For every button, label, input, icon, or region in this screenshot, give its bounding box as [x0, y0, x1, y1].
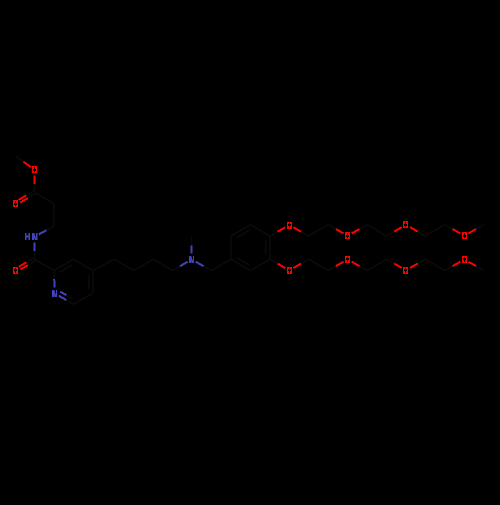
wire: chain CH2-CH2 bond b — [134, 259, 154, 270]
wire: amide C-pyridine C2 bond — [35, 259, 54, 270]
wire: CH2-CH2 bond t2 — [367, 225, 386, 236]
(colored half) wire: CH2-O bond b4 — [394, 264, 402, 268]
wire: NH-C(=O) amide bond — [34, 251, 36, 260]
wire: N-CH2 bond — [204, 266, 212, 270]
(colored half) wire: pyridine N1=C6 double bond — [59, 296, 67, 300]
(colored half) wire: CH2-O bond t2 — [336, 229, 344, 233]
wire: benzene C3-C4 bond — [251, 225, 270, 236]
wire: O-CH2 bond b5 — [418, 259, 426, 263]
atom O label (atom 4) — [13, 200, 18, 207]
(colored half) wire: NH-C(=O) amide bond — [34, 242, 36, 251]
atom O label (atom 46) — [403, 267, 408, 274]
wire: CH2-CH2 bond t3 — [425, 225, 444, 236]
(colored half) wire: N-CH2 bond — [196, 262, 204, 266]
wire: N-methyl bond — [191, 237, 193, 245]
wire: ester methyl C-O bond — [16, 156, 23, 161]
(colored half) wire: pyridine C2-N1 bond — [53, 279, 55, 288]
wire: O-CH2 bond t1 — [301, 232, 309, 236]
(colored half) wire: CH2-O bond t6 — [453, 229, 461, 233]
(colored half) wire: O-CH2 bond t1 — [293, 227, 301, 231]
wire: pyridine-chain CH2 bond — [93, 259, 114, 270]
wire: pyridine N1=C6 double bond — [66, 300, 74, 304]
atom O label (atom 32) — [345, 232, 350, 239]
wire: O-CH2 bond b1 — [301, 259, 309, 263]
atom O label (atom 49) — [462, 256, 467, 263]
wire: benzene C5-C6 bond — [251, 259, 270, 270]
wire: CH2-NH bond — [46, 226, 54, 230]
atom O label (atom 35) — [403, 221, 408, 228]
(colored half) wire: CH2-O bond b6 — [453, 262, 461, 266]
wire: pyridine C2-N1 bond — [53, 271, 55, 280]
(colored half) wire: O-CH2 bond b1 — [293, 264, 301, 268]
(colored half) wire: ester methyl C-O bond — [23, 162, 30, 167]
atom O label (atom 29) — [287, 222, 292, 229]
wire: benzene-O ether bond top — [270, 232, 278, 236]
atom O label (atom 38) — [462, 232, 467, 239]
wire: CH2-O bond t2 — [328, 225, 336, 229]
(colored half) wire: amide C=O double bond — [19, 262, 27, 266]
(colored half) wire: N-methyl bond — [191, 245, 193, 253]
wire: pyridine C5=C4 double bond — [92, 271, 94, 293]
wire: chain CH2-CH2 bond a — [114, 259, 133, 270]
wire: CH2-O bond t6 — [445, 225, 453, 229]
(colored half) wire: O-methyl bond top — [468, 229, 476, 233]
atom N label (atom 20) — [189, 256, 194, 263]
wire: O-CH2 bond t5 — [418, 232, 426, 236]
wire: CH2-CH2 bond b3 — [425, 259, 444, 270]
wire: O-CH2 bond b3 — [359, 266, 367, 270]
(colored half) wire: O-methyl bond bottom — [468, 262, 476, 266]
wire: CH2-O bond b4 — [387, 259, 395, 263]
wire: CH2-N amine bond — [173, 266, 181, 270]
(colored half) wire: O-CH2 bond b3 — [352, 262, 360, 267]
wire: benzene-O ether bond bottom — [270, 259, 278, 263]
(colored half) wire: ester C=O double bond — [19, 195, 27, 199]
wire: amide C=O double bond — [26, 258, 33, 262]
wire: benzene C1-C2 bond — [230, 236, 232, 259]
wire: O-CH2 bond t3 — [359, 225, 367, 229]
wire: CH2-CH2 bond b2 — [367, 259, 386, 270]
(colored half) wire: CH2-N amine bond — [180, 262, 188, 266]
wire: CH2-O bond t4 — [387, 232, 395, 236]
wire: benzene C2=C3 double bond — [231, 225, 251, 236]
wire: benzene C4=C5 double bond — [269, 236, 271, 259]
atom N-H amide label (atom 7) — [25, 233, 30, 240]
atom O label (atom 40) — [287, 267, 292, 274]
atom O label (atom 43) — [345, 256, 350, 263]
atom N label (atom 11) — [52, 290, 57, 297]
wire: CH2-benzene bond — [212, 259, 232, 270]
atom O label (atom 2) — [32, 166, 37, 173]
wire: CH2-CH2 bond — [53, 204, 55, 226]
wire: CH2-CH2 bond b1 — [309, 259, 329, 270]
atom O label (atom 9) — [13, 267, 18, 274]
wire: C(=O)-CH2 bond — [35, 192, 54, 203]
(colored half) wire: CH2-NH bond — [39, 230, 47, 234]
wire: CH2-O bond b6 — [445, 266, 453, 271]
(colored half) wire: benzene-O ether bond top — [278, 227, 286, 231]
(colored half) wire: benzene-O ether bond bottom — [278, 264, 286, 268]
(colored half) wire: ester O-C(=O) bond — [34, 176, 36, 184]
wire: O-methyl bond bottom — [476, 266, 484, 270]
wire: ester O-C(=O) bond — [34, 184, 36, 192]
(colored half) wire: O-CH2 bond t3 — [352, 229, 360, 233]
(colored half) wire: O-CH2 bond b5 — [410, 264, 418, 268]
wire: ester C=O double bond — [26, 191, 34, 195]
wire: CH2-CH2 bond t1 — [309, 225, 329, 236]
wire: pyridine C3=C2 double bond — [54, 259, 73, 270]
(colored half) wire: O-CH2 bond t5 — [410, 227, 418, 231]
wire: O-methyl bond top — [476, 225, 484, 229]
wire: benzene C6=C1 double bond — [231, 259, 251, 270]
(colored half) wire: CH2-O bond b2 — [336, 262, 344, 266]
wire: pyridine C4-C3 bond — [73, 259, 93, 270]
wire: CH2-O bond b2 — [328, 266, 336, 270]
wire: chain CH2-CH2 bond c — [153, 259, 172, 270]
wire: pyridine C6-C5 bond — [74, 293, 93, 304]
(colored half) wire: CH2-O bond t4 — [394, 227, 402, 231]
